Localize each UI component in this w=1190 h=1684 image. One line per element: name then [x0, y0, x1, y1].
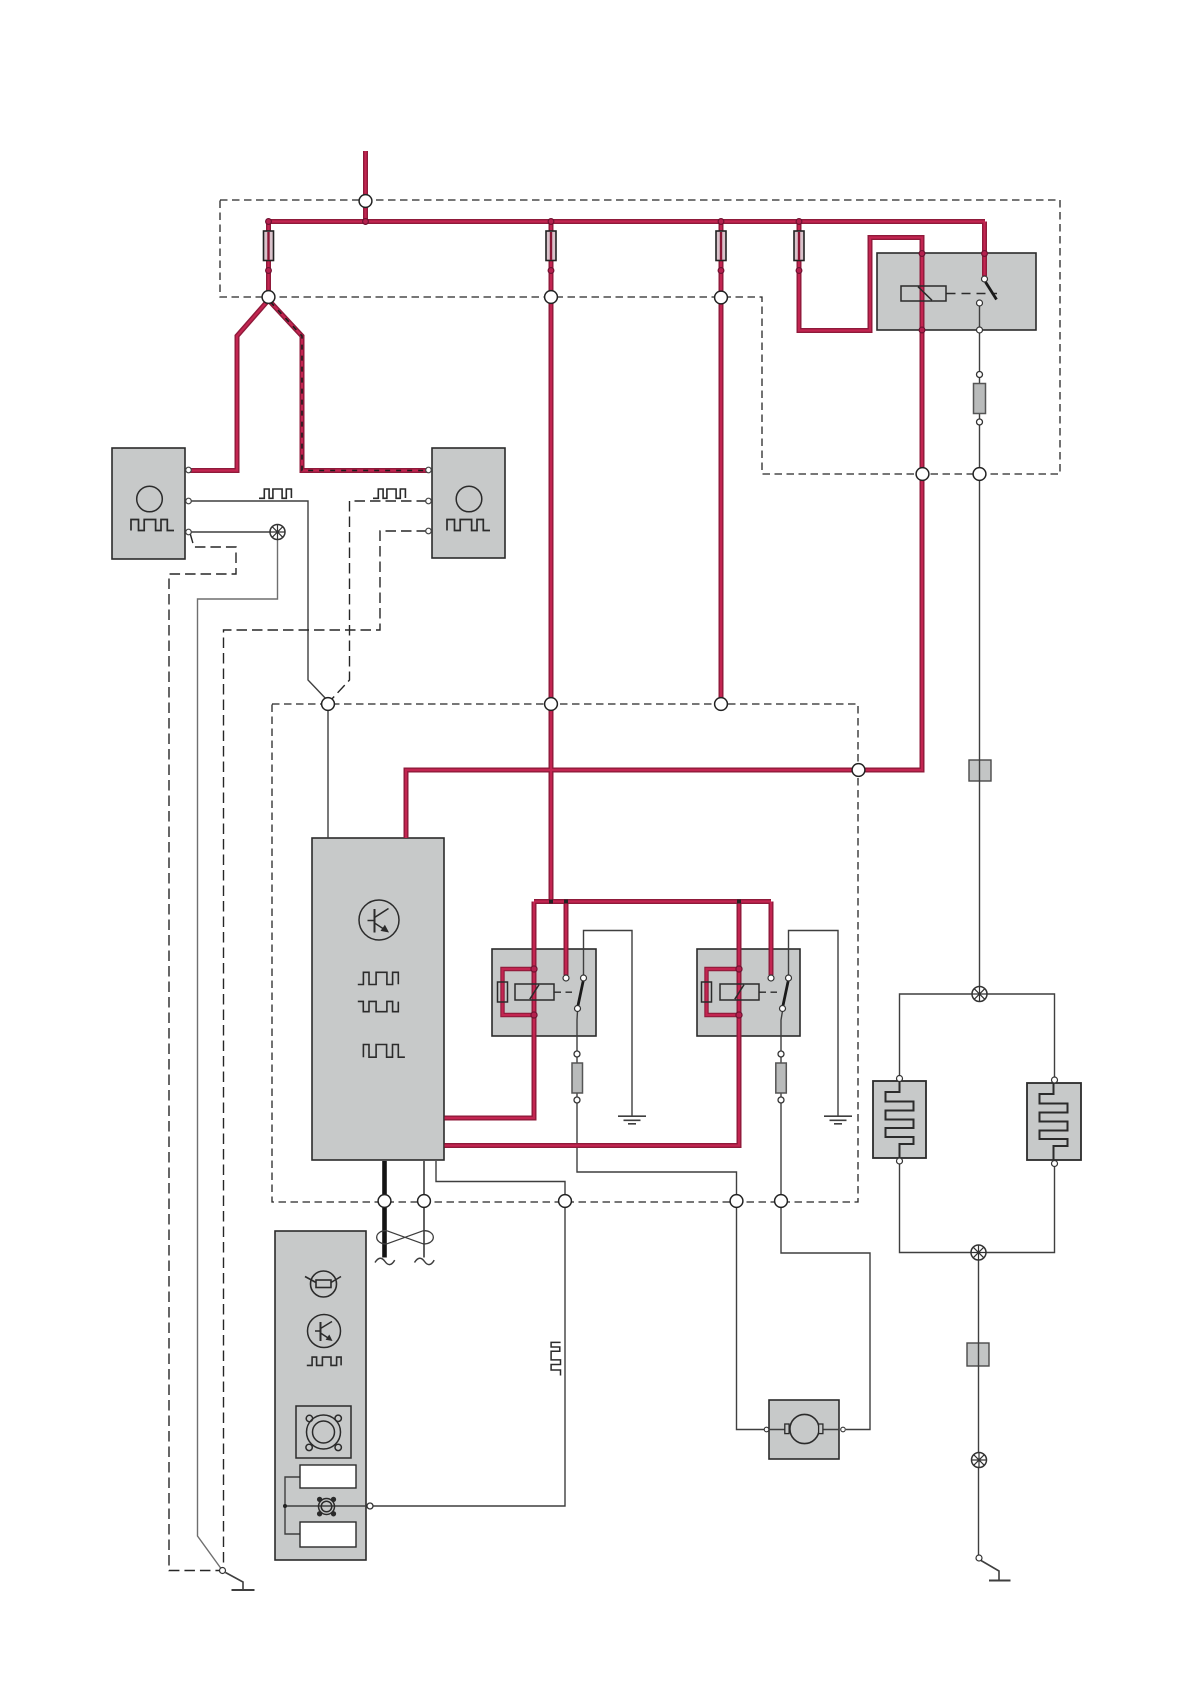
wire red: bus to relay K1 contact: [982, 222, 987, 277]
sensor B2 pulse glyph: [447, 520, 490, 531]
control unit A1 pulse glyph row1: [358, 972, 399, 984]
pin: F3 bottom red: [718, 268, 724, 274]
fuse F6 below relay K2: [572, 1063, 583, 1093]
fuse F7 below relay K3: [776, 1063, 787, 1093]
pin: K1 coil bottom red: [919, 327, 925, 333]
pin: K3 coil lower red: [736, 1012, 742, 1018]
instrument module transistor symbol: [308, 1315, 341, 1348]
heater element E1 box: [873, 1081, 926, 1158]
fuse F4: [794, 231, 804, 261]
pin: fuse F6 top: [574, 1051, 580, 1057]
node: fuse F1 boundary circle: [262, 291, 275, 304]
ground bar bottom right: [989, 1580, 1011, 1582]
wire: relay K2 contact through fuse to motor M1: [577, 1011, 764, 1430]
relay K2 contact blade: [578, 980, 584, 1007]
pin: K1 contact lower: [977, 300, 983, 306]
pin: K2 contact right: [581, 975, 587, 981]
pin: K3 coil upper red: [736, 966, 742, 972]
wire red: relay coil bus: [534, 899, 771, 904]
wire: instrument module internal link: [285, 1477, 300, 1534]
instrument module lamp symbol: [305, 1271, 341, 1297]
relay K2 coil: [515, 984, 554, 1000]
pin: sensor B1 shield: [186, 529, 192, 535]
wire: relay K3 contact through fuse to motor M1: [781, 1011, 870, 1430]
sensor B1 box: [112, 448, 185, 559]
pin: instrument module output: [367, 1503, 373, 1509]
wire: relay K1 contact down through fuse to junction: [979, 306, 981, 471]
pin: fuse F7 top: [778, 1051, 784, 1057]
pin: F2 top red: [548, 219, 554, 225]
relay K3 resistor: [702, 982, 712, 1002]
relay K3 coil-contact dashed link: [760, 991, 781, 993]
ground G2: [824, 1116, 852, 1124]
motor M1 internal feed wire: [769, 1429, 839, 1431]
instrument module small motor symbol: [318, 1498, 336, 1516]
pin: heater E1 top: [897, 1076, 903, 1082]
twisted pair symbol: [377, 1231, 434, 1244]
switch blade bottom left: [226, 1573, 244, 1590]
pin: F3 top red: [718, 219, 724, 225]
pin: sensor B2 supply: [426, 467, 432, 473]
pin: heater E1 bottom: [897, 1158, 903, 1164]
pin: K2 common: [575, 1006, 581, 1012]
wire red: relay K2 contact feed: [564, 902, 569, 976]
wire red: relay K3 resistor bypass: [707, 969, 740, 1015]
relay K1 box (top right): [877, 253, 1036, 330]
node A: sensor signals merge circle: [322, 698, 335, 711]
wire red: fuse F2 feed down to relay bus: [549, 222, 554, 902]
splice S1: [270, 525, 285, 540]
wire red: relay K3 coil feed and return to control unit: [445, 902, 740, 1146]
wire dashed: sensor B2 signal to node A: [330, 501, 427, 701]
wire red: relay K2 resistor bypass: [503, 969, 535, 1015]
pulse glyph on B2 signal wire: [373, 489, 405, 498]
pin: K3 contact left: [768, 975, 774, 981]
instrument module pulse glyph: [307, 1357, 341, 1365]
pin: motor M1 right: [841, 1427, 846, 1432]
pin: bus tap red circle: [363, 219, 369, 225]
relay K2 box: [492, 949, 596, 1036]
wire red striped: supply to sensor B2: [269, 300, 431, 471]
switch blade bottom right: [981, 1561, 999, 1581]
wire: splice S2 to heater E1: [900, 994, 973, 1076]
relay K2 resistor: [498, 982, 508, 1002]
wire dashed: sensor B2 shield to bottom-left switch: [224, 531, 428, 1567]
pin: fuse F5 top: [977, 372, 983, 378]
relay K3 contact blade: [783, 980, 789, 1007]
connector C1 gray square: [969, 760, 991, 781]
wire red: relay K3 contact feed: [769, 902, 774, 976]
wire black stripe overlay on B2 supply: [271, 302, 431, 471]
dashed harness box middle (engine compartment): [272, 704, 858, 1202]
pin: K3 contact right: [786, 975, 792, 981]
splice S4: [972, 1453, 987, 1468]
sensor B1 rotor circle: [137, 486, 163, 512]
heater element E2 box: [1027, 1083, 1081, 1160]
fuse F3: [716, 231, 726, 261]
pin: K2 coil lower red: [531, 1012, 537, 1018]
motor M1 armature circle: [790, 1414, 819, 1443]
wire: heater E2 to splice S3: [986, 1167, 1055, 1253]
dashed harness box top (power distribution): [220, 200, 1060, 474]
pin: sensor B1 supply: [186, 467, 192, 473]
wire: relay K3 ground branch: [789, 931, 839, 1117]
pulse glyph on instrument feed wire: [551, 1342, 561, 1375]
relay K1 contact blade: [986, 282, 997, 300]
wire red: supply to sensor B1: [190, 300, 269, 471]
wire black stripe overlay on B2 supply (over bright core): [271, 302, 431, 471]
node: thin output boundary circle: [418, 1195, 431, 1208]
pin: heater E2 top: [1052, 1077, 1058, 1083]
wire red: battery feed stub: [363, 151, 368, 222]
control unit A1 pulse glyph row3: [363, 1045, 405, 1058]
pin: K1 contact upper: [982, 276, 988, 282]
wire: control unit A1 to instrument module: [373, 1161, 566, 1506]
instrument module box: [275, 1231, 366, 1560]
wire red: relay K2 coil feed and return to control unit: [445, 902, 535, 1119]
node: K1 contact circuit boundary circle: [973, 468, 986, 481]
relay K2 coil-contact dashed link: [555, 991, 576, 993]
ground G1: [618, 1116, 646, 1124]
control unit A1 pulse glyph row2: [358, 1001, 399, 1011]
node: thick output boundary circle: [378, 1195, 391, 1208]
pin: K3 common: [780, 1006, 786, 1012]
fuse F5 below relay K1: [974, 384, 986, 414]
node: fuse F2 boundary circle: [545, 291, 558, 304]
pin: bottom-right switch: [976, 1555, 982, 1561]
relay K3 box: [697, 949, 800, 1036]
node: fuse F3 boundary circle: [715, 291, 728, 304]
wire: sensor B1 return to splice S1: [190, 531, 270, 533]
pin: K1 bottom edge: [977, 327, 983, 333]
wire: junction down through connector C1 to splice S2: [979, 480, 981, 990]
splice S3: [971, 1245, 986, 1260]
pin: sensor B2 signal: [426, 498, 432, 504]
wire: splice S2 to heater E2: [987, 994, 1055, 1077]
relay K1 coil-contact dashed link: [947, 293, 998, 295]
node: K1 coil return boundary circle: [852, 764, 865, 777]
pin: sensor B2 shield: [426, 528, 432, 534]
pin: fuse F6 bottom: [574, 1097, 580, 1103]
pin: F2 bottom red: [548, 268, 554, 274]
motor M1 brushes: [785, 1424, 789, 1434]
splice S2: [972, 987, 987, 1002]
wire: heater E1 to splice S3: [900, 1164, 972, 1253]
pin: K1 coil top red: [919, 251, 925, 257]
fuse F1: [264, 231, 274, 261]
pin: K2 coil upper red: [531, 966, 537, 972]
control unit A1 transistor symbol: [359, 900, 399, 940]
sensor B2 box: [432, 448, 505, 558]
pin: fuse F7 bottom: [778, 1097, 784, 1103]
wire: node A to control unit A1: [327, 707, 329, 838]
junction dot bus-K2 contact: [564, 900, 568, 904]
junction dot bus-K3 coil: [737, 900, 741, 904]
node: K1 coil circuit boundary circle: [916, 468, 929, 481]
node: instrument feed boundary circle: [559, 1195, 572, 1208]
relay K3 coil: [720, 984, 759, 1000]
wire red bright core overlay: [190, 151, 985, 1146]
heater E2 element: [1040, 1083, 1068, 1160]
pin: K2 contact left: [563, 975, 569, 981]
node: K2 load boundary circle: [730, 1195, 743, 1208]
wire red: fuse F4 through relay K1 coil to control circuit: [406, 222, 922, 839]
pin: motor M1 left: [764, 1427, 769, 1432]
wire dashed: sensor B1 shield to bottom-left switch: [169, 533, 236, 1571]
pin: F4 top red: [796, 219, 802, 225]
fuse F2: [546, 231, 556, 261]
pulse glyph on B1 signal wire: [259, 489, 291, 498]
junction dot bus-F2: [549, 900, 553, 904]
wire: control unit A1 thick output to twisted pair: [382, 1161, 387, 1258]
node: K3 load boundary circle: [775, 1195, 788, 1208]
wire: splice S3 down through connector C2 and splice S4 to switch: [978, 1260, 980, 1555]
wire: thin black sensor B1 signal to node A: [190, 501, 328, 701]
node: top feed connector circle: [359, 195, 372, 208]
relay K1 coil: [901, 286, 946, 301]
junction dot instrument module: [283, 1504, 287, 1508]
node: F3 feed boundary circle: [715, 698, 728, 711]
tilde end thick wire: [375, 1258, 395, 1264]
heater E1 element: [886, 1081, 914, 1158]
node: F2 feed boundary circle: [545, 698, 558, 711]
wire: relay K2 ground branch: [584, 931, 633, 1117]
wire red: fuse F1 drop: [266, 222, 271, 295]
ground bar bottom left: [232, 1589, 255, 1591]
pump motor M1 box: [769, 1400, 839, 1459]
sensor B1 pulse glyph: [131, 520, 174, 531]
pin: F1 bottom red: [266, 268, 272, 274]
instrument module white rect 2: [300, 1522, 356, 1547]
wire red: main supply bus: [266, 219, 985, 224]
wire: control unit A1 thin output to twisted pair: [423, 1161, 425, 1258]
pin: K1 contact top red: [982, 251, 988, 257]
instrument module gauge symbol: [296, 1406, 351, 1458]
pin: fuse F5 bottom: [977, 419, 983, 425]
wire: instrument module output row: [285, 1505, 366, 1507]
pin: F4 bottom red: [796, 268, 802, 274]
connector C2 gray square: [967, 1343, 989, 1366]
pin: sensor B1 signal: [186, 498, 192, 504]
tilde end thin wire: [415, 1258, 435, 1264]
sensor B2 rotor circle: [456, 486, 482, 512]
wire red: fuse F3 drop to connector: [719, 222, 724, 705]
pin: bottom-left switch: [220, 1568, 226, 1574]
pin: heater E2 bottom: [1052, 1161, 1058, 1167]
control unit A1 box: [312, 838, 444, 1160]
wire: splice S1 down to bottom-left switch: [198, 540, 278, 1569]
instrument module white rect 1: [300, 1465, 356, 1488]
pin: F1 top red: [266, 219, 272, 225]
